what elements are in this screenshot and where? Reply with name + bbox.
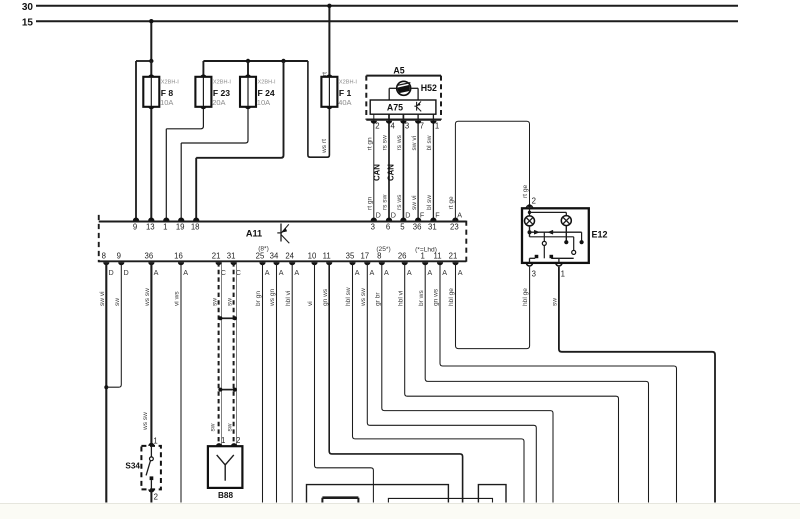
svg-text:hbl ge: hbl ge — [522, 288, 529, 306]
alarm control unit A75 — [370, 100, 436, 114]
A11 pin8 wire gr br routed right — [375, 252, 554, 503]
svg-text:2: 2 — [532, 197, 536, 206]
svg-text:A: A — [183, 268, 188, 277]
cut-off box lower centre — [307, 485, 449, 503]
svg-text:D: D — [391, 210, 396, 219]
svg-text:8: 8 — [377, 252, 381, 261]
svg-text:sw: sw — [211, 298, 218, 306]
A11 top pin 1 — [163, 218, 169, 232]
svg-text:bl sw: bl sw — [426, 135, 433, 150]
svg-text:1: 1 — [153, 437, 157, 446]
svg-text:bl sw: bl sw — [426, 195, 433, 210]
svg-text:A: A — [370, 268, 375, 277]
svg-text:CAN: CAN — [387, 164, 396, 181]
label ws rt — [321, 139, 328, 154]
A11 top pin 19 — [176, 218, 185, 232]
svg-text:D: D — [109, 268, 114, 277]
svg-text:5: 5 — [400, 222, 405, 231]
terminal 15 bus wire — [36, 20, 738, 22]
E12 feed wiring — [528, 208, 567, 216]
wire F23 out to A11 pin1 — [166, 107, 203, 222]
svg-text:8: 8 — [102, 252, 106, 261]
svg-text:X2BH-I: X2BH-I — [213, 80, 231, 86]
A11 pin34 wire ws gn — [269, 252, 284, 503]
svg-text:A75: A75 — [387, 103, 403, 113]
wire F8 to fuse — [150, 61, 152, 77]
svg-text:4: 4 — [391, 122, 396, 131]
node bus-F24 — [246, 59, 250, 63]
A11 pin9 wire sw — [106, 252, 128, 388]
A11 top pin 13 — [146, 218, 155, 232]
svg-text:13: 13 — [146, 222, 155, 231]
svg-text:rs ws: rs ws — [396, 134, 403, 150]
svg-text:rt gn: rt gn — [367, 137, 374, 151]
svg-text:gr br: gr br — [375, 292, 382, 306]
wire F1 out ws rt loop — [308, 61, 330, 157]
svg-text:F 8: F 8 — [161, 88, 174, 98]
wire 30 to F1 — [327, 4, 331, 77]
svg-text:1: 1 — [435, 122, 439, 131]
svg-text:sw vi: sw vi — [411, 195, 418, 210]
wire F24 out to A11 pin19 — [181, 107, 248, 222]
control unit box A5 — [366, 66, 441, 120]
fuse F23 20A — [195, 74, 231, 109]
terminal 15 bus label — [22, 18, 34, 29]
svg-text:A: A — [384, 268, 389, 277]
svg-text:15: 15 — [22, 18, 34, 29]
svg-text:9: 9 — [133, 222, 137, 231]
svg-text:23: 23 — [450, 222, 459, 231]
A11 pin26 wire hbl vi routed right — [397, 252, 618, 503]
svg-text:2: 2 — [236, 436, 240, 445]
svg-text:vi ws: vi ws — [174, 291, 181, 306]
cut-off box inner bar — [322, 498, 358, 503]
svg-text:F 24: F 24 — [258, 88, 275, 98]
svg-text:rs sw: rs sw — [382, 194, 389, 210]
svg-text:21: 21 — [449, 252, 458, 261]
wire 15 to F8 junction — [149, 19, 153, 61]
E12 pin3 — [522, 263, 536, 306]
svg-text:18: 18 — [191, 222, 200, 231]
A11 pin35 wire hbl sw routed right — [345, 252, 524, 503]
svg-text:3: 3 — [371, 222, 375, 231]
svg-text:3: 3 — [405, 122, 409, 131]
svg-text:sw: sw — [210, 423, 217, 431]
label (8*) — [258, 246, 269, 253]
svg-text:24: 24 — [285, 252, 294, 261]
svg-text:rs sw: rs sw — [382, 135, 389, 151]
svg-text:31: 31 — [227, 252, 236, 261]
wire A5 pin 4 (rs sw) to A11 pin 6 — [382, 114, 396, 231]
E12 pin1 wire sw — [552, 263, 715, 503]
svg-text:36: 36 — [413, 222, 422, 231]
svg-text:A: A — [265, 268, 270, 277]
A11 pin21 wire hbl ge to E12 pin3 — [448, 252, 529, 349]
svg-text:sw vi: sw vi — [99, 291, 106, 306]
svg-text:1: 1 — [561, 270, 565, 279]
svg-text:1: 1 — [221, 436, 225, 445]
svg-text:34: 34 — [270, 252, 279, 261]
svg-text:10: 10 — [308, 252, 317, 261]
svg-text:sw: sw — [227, 423, 234, 431]
svg-text:20A: 20A — [212, 98, 225, 107]
svg-text:rt ge: rt ge — [522, 184, 529, 198]
svg-text:sw vi: sw vi — [411, 135, 418, 150]
scan cut strip — [0, 503, 800, 519]
svg-text:ws rt: ws rt — [321, 139, 328, 154]
svg-text:B88: B88 — [218, 491, 233, 500]
svg-text:21: 21 — [212, 252, 221, 261]
svg-text:rt gn: rt gn — [367, 196, 374, 210]
svg-text:F: F — [435, 210, 440, 219]
switch S34 — [125, 437, 160, 503]
terminal 30 bus wire — [36, 5, 738, 7]
svg-text:D: D — [405, 210, 410, 219]
svg-text:17: 17 — [360, 252, 369, 261]
wire F8 out to A11 pin13 — [150, 107, 152, 222]
A11 pin10 wire vi routed right — [307, 252, 373, 503]
svg-text:X2BH-I: X2BH-I — [258, 80, 276, 86]
svg-text:7: 7 — [420, 122, 424, 131]
svg-text:CAN: CAN — [372, 164, 381, 181]
svg-text:hbl sw: hbl sw — [345, 287, 352, 306]
fuse F1 40A — [321, 74, 357, 109]
screen tie upper — [218, 316, 236, 320]
control unit box A11 — [99, 215, 467, 262]
svg-text:X2BH-I: X2BH-I — [339, 80, 357, 86]
svg-text:A5: A5 — [393, 66, 404, 76]
wire A11 pin23 to E12 pin2 rt ge — [448, 121, 536, 231]
svg-text:X2BH-I: X2BH-I — [161, 80, 179, 86]
svg-text:gn ws: gn ws — [322, 288, 329, 306]
svg-text:3: 3 — [532, 270, 536, 279]
A11 top pin 9 — [133, 218, 139, 232]
svg-text:A: A — [407, 268, 412, 277]
svg-text:hbl vi: hbl vi — [397, 290, 404, 306]
svg-text:rs ws: rs ws — [396, 194, 403, 210]
svg-text:A: A — [294, 268, 299, 277]
svg-text:40A: 40A — [338, 98, 351, 107]
fuse bus F23 F24 — [203, 60, 308, 62]
antenna B88 — [208, 436, 243, 500]
label CAN high — [372, 164, 381, 181]
label rt on F1 feed — [321, 72, 328, 76]
svg-text:2: 2 — [154, 492, 158, 501]
svg-text:2: 2 — [375, 122, 379, 131]
A11 pin11 wire gn ws routed right — [433, 252, 677, 503]
A11 control symbol — [277, 224, 289, 244]
A11 pin1 wire br ws routed right — [418, 252, 649, 503]
svg-text:10A: 10A — [257, 98, 270, 107]
svg-text:S34: S34 — [125, 461, 140, 470]
wire A5 pin 2 (rt gn) to A11 pin 3 — [367, 114, 381, 231]
svg-text:A: A — [442, 268, 447, 277]
A11 pin25 wire br gn — [255, 252, 270, 503]
svg-text:hbl ge: hbl ge — [448, 288, 455, 306]
svg-text:19: 19 — [176, 222, 185, 231]
E12 warning lamp right — [561, 216, 571, 226]
svg-text:E12: E12 — [592, 230, 608, 240]
A11 pin16 wire vi ws — [174, 252, 189, 503]
wire bus to F24 — [247, 61, 249, 77]
svg-text:1: 1 — [421, 252, 425, 261]
fuse F24 10A — [240, 74, 276, 109]
A11 pin24 wire hbl vi — [285, 252, 300, 503]
svg-text:D: D — [376, 210, 381, 219]
svg-text:36: 36 — [145, 252, 154, 261]
label (25*) — [376, 246, 390, 253]
svg-text:rt ge: rt ge — [448, 196, 455, 210]
svg-text:hbl vi: hbl vi — [285, 290, 292, 306]
svg-text:F: F — [420, 210, 425, 219]
svg-text:A: A — [355, 268, 360, 277]
svg-text:11: 11 — [433, 252, 441, 261]
svg-text:sw: sw — [114, 298, 121, 306]
wire bus to F23 — [202, 61, 204, 77]
svg-text:11: 11 — [323, 252, 331, 261]
svg-text:A: A — [279, 268, 284, 277]
svg-text:br gn: br gn — [255, 291, 262, 306]
A11 pin31 screened wire sw to B88 pin2 — [226, 252, 241, 446]
svg-text:sw: sw — [226, 298, 233, 306]
svg-text:ws sw: ws sw — [142, 412, 149, 431]
svg-text:1: 1 — [163, 222, 167, 231]
label (*=Lhd) — [415, 246, 437, 253]
svg-text:H52: H52 — [421, 83, 437, 93]
A11 pin36 wire ws sw to S34 — [142, 252, 158, 445]
alarm horn H52 — [389, 81, 437, 100]
wire A5 pin 3 (rs ws) to A11 pin 5 — [396, 114, 410, 231]
svg-text:vi: vi — [307, 301, 314, 306]
wire A5 pin 7 (sw vi) to A11 pin 36 — [411, 114, 425, 231]
svg-text:16: 16 — [174, 252, 183, 261]
svg-text:A: A — [154, 268, 159, 277]
svg-text:A: A — [427, 268, 432, 277]
svg-text:F 23: F 23 — [213, 88, 230, 98]
svg-text:gn ws: gn ws — [433, 288, 440, 306]
A11 pin8 wire sw vi — [99, 252, 114, 503]
svg-text:A: A — [458, 268, 463, 277]
svg-text:31: 31 — [428, 222, 437, 231]
cut-off box lower right — [478, 485, 506, 503]
svg-text:25: 25 — [256, 252, 265, 261]
svg-text:ws sw: ws sw — [360, 288, 367, 307]
E12 warning lamp left — [525, 216, 535, 226]
fuse F8 10A — [143, 74, 179, 109]
svg-text:F 1: F 1 — [339, 88, 352, 98]
svg-text:A: A — [457, 210, 462, 219]
hazard switch box E12 — [522, 208, 608, 263]
label CAN low — [387, 164, 396, 181]
A11 pin17 wire ws sw routed right — [360, 252, 536, 503]
node F8 top junction — [149, 59, 153, 63]
A11 pin11 wire gn ws routed right — [322, 252, 463, 503]
terminal 30 bus label — [22, 2, 34, 13]
screen tie lower — [218, 388, 236, 392]
node bus-18 — [281, 59, 285, 63]
svg-text:9: 9 — [117, 252, 121, 261]
A11 top pin 18 — [191, 218, 200, 232]
svg-text:sw: sw — [552, 298, 559, 306]
svg-text:35: 35 — [346, 252, 355, 261]
wire branch to A11 pin9 — [136, 61, 151, 222]
svg-text:30: 30 — [22, 2, 34, 13]
svg-text:ws sw: ws sw — [144, 288, 151, 307]
svg-text:A11: A11 — [246, 228, 262, 238]
svg-text:10A: 10A — [160, 98, 173, 107]
svg-text:6: 6 — [386, 222, 390, 231]
svg-text:br ws: br ws — [418, 290, 425, 306]
svg-text:D: D — [124, 268, 129, 277]
wire A5 pin 1 (bl sw) to A11 pin 31 — [426, 114, 440, 231]
wire bus to A11 pin18 — [196, 61, 283, 222]
A11 pin21 screened wire sw to B88 pin1 — [210, 252, 226, 446]
svg-text:ws gn: ws gn — [269, 288, 276, 307]
E12 switch mechanism — [528, 226, 584, 263]
cut-off box wide — [388, 498, 492, 502]
svg-text:26: 26 — [398, 252, 407, 261]
